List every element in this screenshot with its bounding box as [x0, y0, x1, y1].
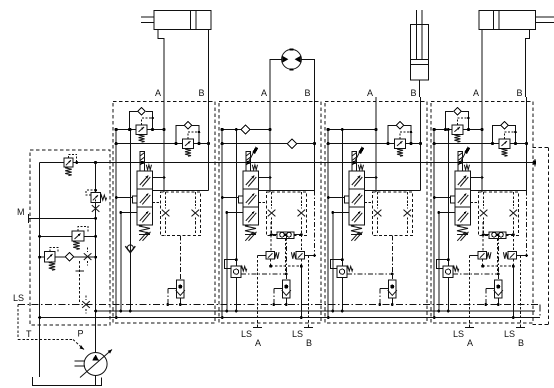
spool body tab: [450, 196, 455, 203]
LS gallery orifice: [82, 301, 90, 308]
section 1 pressure drop: [120, 213, 122, 312]
section 1 port A line: [163, 97, 165, 192]
svg-text:LS: LS: [292, 329, 303, 339]
pilot branch A: [377, 192, 379, 204]
pressure gallery end plug: [534, 159, 536, 167]
section 3 tank drop: [327, 130, 329, 318]
manual lever: [248, 150, 255, 163]
spool body tab: [132, 196, 137, 203]
section 2 LS port line B: [308, 256, 310, 328]
LS reducing valve: [40, 235, 96, 237]
LS relief valve: [45, 251, 56, 261]
section 3 dashed enclosure: [325, 102, 427, 324]
section 1 spool out B: [152, 190, 208, 192]
section 2 secondary relief B: [300, 235, 302, 252]
section 4 secondary relief A: [478, 252, 486, 260]
section 3 port A line: [375, 97, 377, 192]
outer end-plate dashed outline: [533, 146, 549, 148]
section 4 work line A top: [434, 129, 482, 131]
section 2 secondary relief A: [266, 252, 274, 260]
section 2 tank drop: [221, 130, 223, 318]
section 4 LS link: [453, 273, 498, 275]
section 1 port B line: [208, 97, 210, 191]
section 4 spool stub P: [439, 212, 455, 214]
section 4 shuttle output: [497, 239, 499, 274]
unloader pilot valve: [91, 193, 101, 203]
section 2 B pilot ext: [314, 191, 316, 256]
svg-text:P: P: [78, 329, 84, 339]
section 2 port A line: [269, 97, 271, 192]
section 2 A pilot ext: [270, 222, 272, 252]
pilot orifice A: [480, 210, 488, 217]
unloader orifice: [92, 205, 100, 212]
spool pilot cap: [458, 152, 463, 172]
section 1 tank drop: [115, 130, 117, 318]
section 2 pressure drop: [226, 213, 228, 312]
section 2 work line A top: [222, 129, 270, 131]
section 4 spool out A: [470, 177, 482, 179]
section 2 feed line: [235, 130, 237, 312]
section 4 spool out B: [470, 190, 526, 192]
section 2 work line B top: [222, 143, 314, 145]
section 1 feed line: [129, 130, 131, 312]
spool body tab: [238, 196, 243, 203]
spool body tab: [344, 196, 349, 203]
section 2 pilot cross link: [271, 265, 302, 267]
section 4 port relief A: [445, 111, 453, 129]
svg-text:A: A: [261, 88, 267, 98]
main spool valve body: [137, 171, 153, 225]
section 2 port B line: [314, 97, 316, 191]
section 4 port A line: [481, 97, 483, 192]
section 3 spool stub P: [333, 212, 349, 214]
tank return bus: [40, 317, 540, 319]
svg-text:LS: LS: [241, 329, 252, 339]
section 1 spool out A: [152, 177, 164, 179]
section 4 pressure compensator: [443, 266, 453, 278]
compensator pilot dashed box: [161, 192, 201, 236]
cylinder 3 top-right: [479, 10, 536, 29]
section 2 shuttle output: [285, 239, 287, 274]
section 1 spool stub T: [116, 197, 132, 199]
section 3 spool out A: [364, 177, 376, 179]
variable displacement pump: [84, 353, 107, 376]
section 4 port B line: [526, 97, 528, 191]
section 1 load check valve: [127, 245, 133, 251]
pilot branch B: [300, 192, 302, 204]
section 4 B pilot ext: [526, 191, 528, 256]
section 2 check valve A: [241, 125, 250, 134]
main spool valve body: [455, 171, 471, 225]
section 3 work line B top: [328, 143, 420, 145]
spool pilot cap: [352, 152, 357, 172]
inlet pilot drop: [79, 261, 81, 305]
section 2 relief drain to tank: [300, 266, 302, 317]
svg-text:A: A: [255, 338, 261, 348]
section 4 A pilot ext: [482, 222, 484, 252]
cylinder 1 pipe B: [208, 29, 210, 97]
pilot branch A: [165, 192, 167, 204]
section 2 spool out A: [258, 177, 270, 179]
section 1 dashed enclosure: [113, 102, 215, 324]
section 4 shuttle valve: [483, 234, 489, 236]
pilot branch B: [406, 192, 408, 204]
pilot orifice B: [298, 210, 306, 217]
main spool valve body: [243, 171, 258, 225]
section 4 relief drain to tank: [512, 266, 514, 317]
svg-text:LS: LS: [13, 293, 24, 303]
pump pressure bus: [96, 310, 535, 312]
spool pilot cap: [246, 152, 251, 172]
section 1 work line B top: [116, 143, 208, 145]
cylinder 1 pipe A: [158, 29, 164, 97]
svg-text:A: A: [473, 88, 479, 98]
inlet section dashed enclosure: [30, 150, 110, 325]
section 2 LS port line A: [257, 256, 259, 328]
section 3 spool out B: [364, 190, 420, 192]
cylinder 3 pipe B: [526, 29, 530, 97]
pilot orifice A: [268, 210, 276, 217]
spool return spring: [139, 225, 150, 235]
cylinder 3 pipe A: [481, 29, 483, 97]
pilot branch A: [271, 192, 273, 204]
cylinder 1 top-left: [154, 10, 211, 29]
section 3 pressure compensator: [337, 266, 347, 278]
pilot tap from spool: [364, 202, 372, 204]
LS bleed orifice: [84, 253, 92, 260]
pilot orifice A: [374, 210, 382, 217]
manual lever: [354, 150, 361, 163]
section 2 shuttle valve: [271, 234, 277, 236]
section 3 spool stub T: [328, 197, 344, 199]
section 2 LS link: [241, 273, 286, 275]
compensator pilot dashed box: [479, 192, 519, 236]
section 4 dashed enclosure: [431, 102, 533, 324]
pilot tap from spool: [470, 202, 478, 204]
pilot orifice B: [404, 210, 412, 217]
spool pilot cap: [140, 152, 145, 172]
svg-text:A: A: [467, 338, 473, 348]
section 4 pressure drop: [438, 213, 440, 312]
section 4 secondary relief B: [512, 235, 514, 252]
section 3 port B line: [420, 97, 422, 191]
section 3 feed line: [341, 130, 343, 312]
pilot branch B: [512, 192, 514, 204]
section 4 work line B top: [434, 143, 526, 145]
spool return spring: [245, 225, 256, 235]
section 4 pilot cross link: [483, 265, 514, 267]
section 1 work line A top: [116, 129, 164, 131]
spool return spring: [351, 225, 362, 235]
LS pilot to pump regulator: [17, 305, 19, 340]
pressure gallery: [40, 162, 535, 164]
section 4 LS port line A: [469, 256, 471, 328]
LS check valve: [497, 236, 499, 274]
svg-text:B: B: [518, 338, 524, 348]
pilot orifice B: [510, 210, 518, 217]
section 1 port relief A: [130, 111, 138, 129]
svg-text:T: T: [26, 329, 32, 339]
svg-text:B: B: [306, 338, 312, 348]
svg-text:LS: LS: [504, 329, 515, 339]
motor pipe B: [301, 59, 314, 97]
tank: [33, 377, 102, 385]
pump riser full: [95, 163, 97, 353]
pilot orifice B: [192, 210, 200, 217]
pilot branch A: [483, 192, 485, 204]
cylinder 2 pipe: [419, 80, 421, 97]
pilot orifice A: [162, 210, 170, 217]
hydraulic motor: [282, 49, 302, 69]
svg-text:B: B: [305, 88, 311, 98]
pilot branch B: [194, 192, 196, 204]
section 3 work line A top: [328, 129, 376, 131]
LS check valve: [391, 236, 393, 274]
inlet check orifice: [65, 252, 73, 260]
section 3 pressure drop: [332, 213, 334, 312]
section 3 LS link: [347, 273, 392, 275]
section 3 port relief B: [388, 125, 396, 143]
section 4 spool stub T: [434, 197, 450, 199]
pilot tap from spool: [152, 202, 160, 204]
svg-text:B: B: [199, 88, 205, 98]
cylinder 2 vertical ram: [416, 10, 418, 59]
section 2 spool stub T: [222, 197, 238, 199]
section 2 dashed enclosure: [219, 102, 321, 324]
main spool valve body: [349, 171, 365, 225]
svg-text:B: B: [517, 88, 523, 98]
svg-text:A: A: [155, 88, 161, 98]
svg-text:M: M: [17, 207, 25, 217]
manual lever: [460, 150, 467, 163]
section 4 tank drop: [433, 130, 435, 318]
section 2 pressure compensator: [231, 266, 241, 278]
section 2 check valve B: [287, 139, 296, 148]
pilot tap from spool: [258, 202, 266, 204]
LS check valve: [179, 236, 181, 274]
section 2 spool stub P: [227, 212, 243, 214]
LS check valve: [285, 236, 287, 274]
compensator pilot dashed box: [267, 192, 307, 236]
section 4 LS port line B: [520, 256, 522, 328]
svg-text:B: B: [411, 88, 417, 98]
inlet tank line: [39, 163, 41, 378]
section 1 spool stub P: [121, 212, 137, 214]
svg-text:LS: LS: [453, 329, 464, 339]
section 4 feed line: [447, 130, 449, 312]
compensator pilot dashed box: [373, 192, 413, 236]
svg-text:A: A: [367, 88, 373, 98]
main relief valve: [64, 158, 73, 167]
spool return spring: [457, 225, 468, 235]
section 2 spool out B: [258, 190, 314, 192]
motor pipe A: [270, 59, 282, 97]
section 4 port relief B: [493, 125, 501, 143]
inlet LS row: [40, 256, 96, 258]
section 1 port relief B: [176, 125, 184, 143]
